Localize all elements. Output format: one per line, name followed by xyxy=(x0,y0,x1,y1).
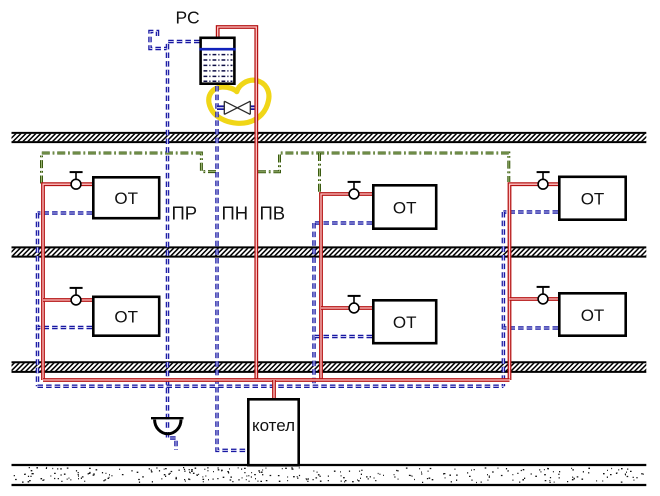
supply riser + branch M2 (middle column) xyxy=(321,194,372,380)
valve radiator L2 xyxy=(70,171,83,173)
return riser middle column xyxy=(312,223,316,386)
svg-text:ПВ: ПВ xyxy=(260,203,286,224)
return branch radiator R2 xyxy=(503,210,558,214)
svg-text:ОТ: ОТ xyxy=(114,308,138,327)
drain funnel xyxy=(151,417,184,419)
supply riser + branch R2 (right column) xyxy=(510,184,559,380)
signal pipe hook at tank xyxy=(150,32,167,49)
supply riser + branch L2 (left column) xyxy=(43,184,92,380)
svg-text:ОТ: ОТ xyxy=(581,306,605,325)
supply branch radiator R1 xyxy=(510,297,559,301)
floor slab 2 (hatched) xyxy=(12,248,647,256)
return main to boiler xyxy=(38,385,504,389)
floor slab 3 (hatched) xyxy=(12,134,647,142)
return branch radiator R1 xyxy=(503,326,558,330)
svg-text:ПР: ПР xyxy=(172,203,198,224)
air line drop to middle riser xyxy=(318,153,321,193)
air line left section (dash-dot) xyxy=(42,153,217,184)
ground line (stippled earth band) xyxy=(12,464,647,466)
boiler (kotel) body xyxy=(248,399,298,465)
boiler supply stub xyxy=(272,380,276,399)
yellow highlight loop around gate valve xyxy=(209,80,269,123)
drain below funnel xyxy=(168,432,177,450)
return branch radiator M1 xyxy=(314,335,372,339)
gate valve (bowtie) on tank bypass xyxy=(224,101,250,114)
supply branch radiator L1 xyxy=(43,298,92,302)
return riser right column xyxy=(502,212,506,386)
svg-text:РС: РС xyxy=(176,8,200,28)
svg-text:ОТ: ОТ xyxy=(581,190,605,209)
supply main along ground xyxy=(43,378,510,382)
svg-text:ОТ: ОТ xyxy=(393,198,417,217)
tank water fill (dash-dot rows) xyxy=(204,55,233,82)
floor slab 1 (hatched) xyxy=(12,363,647,371)
valve radiator M1 xyxy=(348,295,361,297)
pipe PV main supply riser boiler-to-tank xyxy=(218,27,257,380)
valve radiator R1 xyxy=(537,286,550,288)
valve radiator R2 xyxy=(537,171,550,173)
valve radiator M2 xyxy=(348,181,361,183)
radiator OT left floor2 xyxy=(93,177,159,218)
pipe PN riser from tank bottom to boiler xyxy=(217,86,247,450)
air line right section (dash-dot) xyxy=(258,153,509,182)
valve stub left (blue) xyxy=(217,105,224,110)
svg-text:ОТ: ОТ xyxy=(114,189,138,208)
radiator OT middle floor2 xyxy=(373,185,436,228)
return branch radiator L1 xyxy=(38,326,93,330)
svg-text:ОТ: ОТ xyxy=(393,313,417,332)
radiator OT right floor1 xyxy=(559,293,625,335)
radiator OT right floor2 xyxy=(559,177,625,220)
svg-text:котел: котел xyxy=(252,416,295,435)
valve stub right (blue) xyxy=(250,105,258,110)
return branch radiator L2 xyxy=(38,211,93,215)
expansion tank PC body xyxy=(201,38,235,84)
valve radiator L1 xyxy=(70,287,83,289)
return branch radiator M2 xyxy=(314,221,372,225)
supply branch radiator M1 xyxy=(321,306,372,310)
radiator OT middle floor1 xyxy=(373,300,436,343)
svg-text:ПН: ПН xyxy=(222,203,249,224)
return riser left column xyxy=(36,213,40,386)
radiator OT left floor1 xyxy=(93,297,159,336)
tank water level line xyxy=(199,48,235,51)
pipe PR overflow riser from tank to funnel xyxy=(168,42,200,431)
